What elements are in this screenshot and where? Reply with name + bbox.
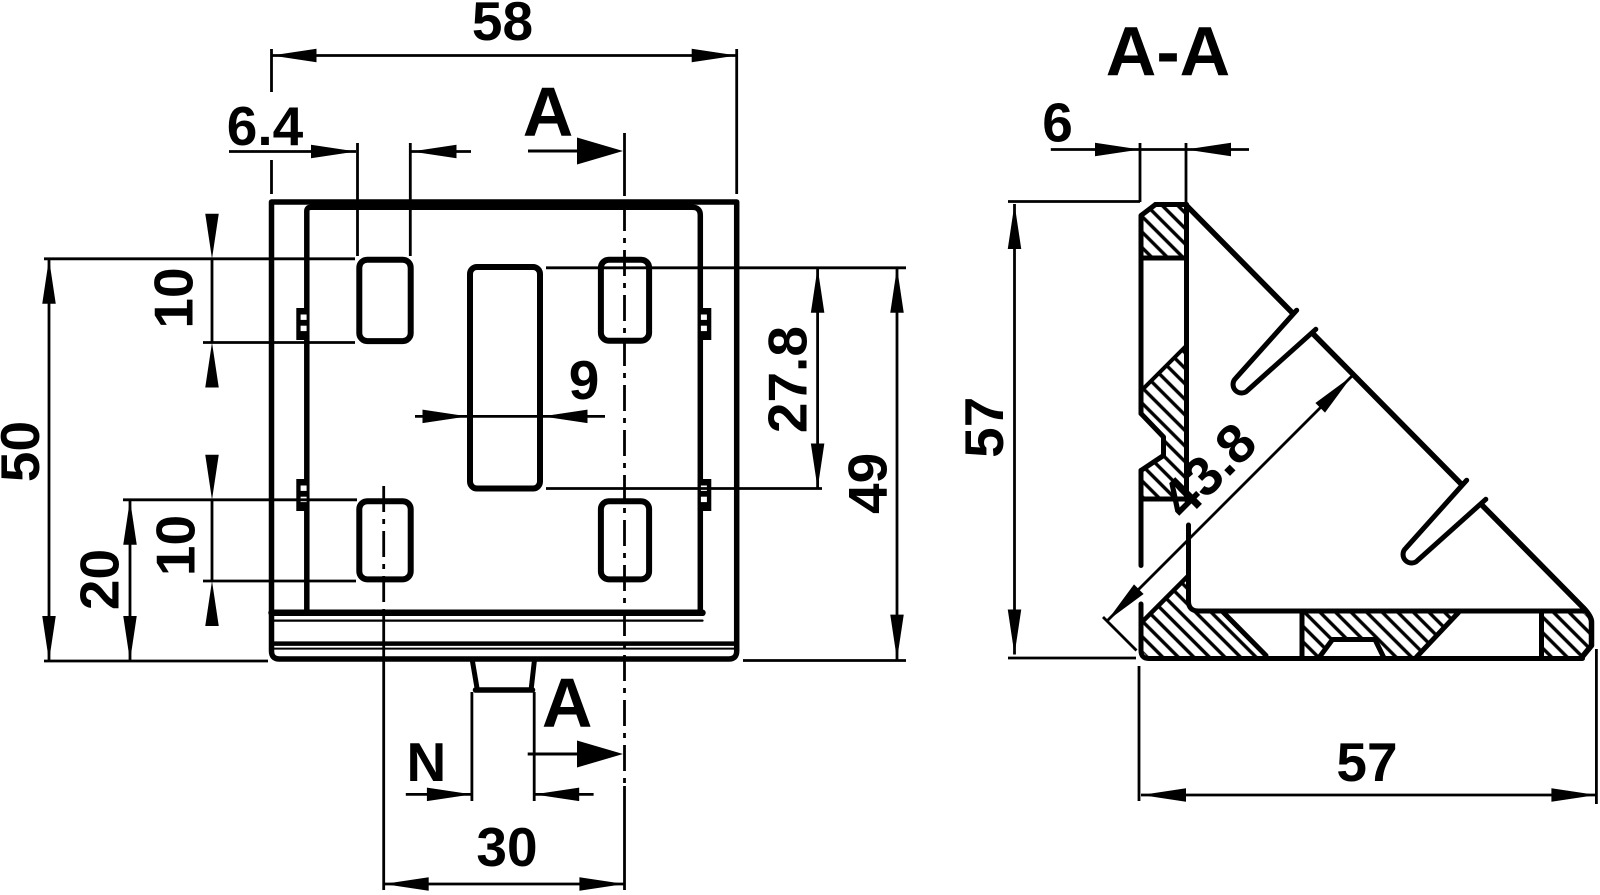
wall tab notch upper-left [296, 308, 309, 340]
section thread hole trapezoid [1320, 640, 1384, 658]
dim 27.8 line [816, 268, 819, 489]
dim 27.8/49 top ref [546, 266, 906, 269]
wall tab notch lower-left [296, 479, 309, 511]
section wall left edge upper segment [1141, 205, 1156, 414]
central slot bottom ref [546, 487, 822, 490]
dim 58 extension left [270, 49, 273, 194]
section right patch left edge [1539, 612, 1544, 659]
arrowheads dim 49 [890, 268, 904, 313]
section middle island right diagonal [1417, 613, 1459, 658]
dim 20 top ref [123, 498, 357, 501]
dim 57 horizontal line [1141, 794, 1596, 797]
arrowheads dim 30 [384, 877, 429, 891]
section wall left edge lower segment + bottom edge [1141, 604, 1583, 659]
dim 50 top extension / 10 ref [44, 257, 355, 260]
wall tab notch lower-right [698, 479, 711, 511]
arrowheads dim N [427, 788, 472, 802]
section A-A hatch zone wall top [1143, 205, 1185, 258]
section kerf slot 1 [1233, 310, 1316, 393]
svg-text:A: A [542, 664, 593, 742]
svg-text:A-A: A-A [1106, 13, 1230, 91]
arrowheads dim 6 [1095, 143, 1140, 157]
arrowheads dim 57 horizontal [1141, 788, 1186, 802]
arrowheads dim 20 [123, 500, 137, 545]
arrowheads dim 43.8 [1107, 584, 1144, 621]
dim N extensions [472, 692, 534, 801]
section arrowhead top [577, 138, 623, 165]
svg-text:57: 57 [953, 397, 1015, 458]
section corner hatch diagonal [1142, 577, 1188, 623]
dim 58 line [272, 54, 737, 57]
dim 57 vertical top ref [1008, 200, 1140, 203]
slot bottom-left [359, 501, 410, 579]
section corner hatch right diagonal [1222, 611, 1266, 656]
dim 57 horizontal extensions [1139, 649, 1596, 804]
slot bottom-right [601, 501, 649, 579]
corner chamfer extension line [1103, 617, 1137, 651]
dim 57 vertical bottom ref [1008, 657, 1136, 660]
section kerf slot 2 [1403, 480, 1486, 563]
arrowheads dim 10 lower [205, 455, 219, 500]
dim 10 lower bottom ref [203, 580, 356, 583]
centerline bottom-left column [382, 486, 385, 614]
svg-text:20: 20 [69, 549, 131, 610]
dim 43.8 leader [1107, 376, 1352, 621]
section middle island left edge [1300, 612, 1305, 659]
dim 30 line [384, 883, 625, 886]
base plate top edge line [272, 610, 703, 617]
arrowheads dim 27.8 [811, 268, 825, 313]
central slot [470, 267, 540, 489]
slot top-left [359, 260, 410, 341]
section arrow line top [528, 150, 580, 153]
arrowheads dim 58 [272, 49, 317, 63]
svg-text:30: 30 [476, 816, 537, 878]
svg-text:A: A [523, 73, 574, 151]
arrowheads dim 9 [423, 410, 468, 424]
section A-A hatch corner blob [1143, 577, 1265, 657]
svg-text:58: 58 [472, 0, 533, 52]
svg-text:9: 9 [569, 349, 600, 411]
base plate lower thin line [274, 648, 734, 650]
dim 6.4 line [229, 150, 471, 153]
dim 6 extensions [1140, 143, 1186, 202]
section arrowhead bottom [577, 741, 623, 768]
section inner corner edge [1189, 525, 1586, 611]
section line A-A centerline [623, 205, 626, 786]
dim 58 extension right [735, 49, 738, 194]
dim 57 vertical line [1013, 204, 1016, 655]
svg-text:10: 10 [145, 515, 207, 576]
svg-text:57: 57 [1336, 731, 1397, 793]
section wall hatch bottom boundary [1142, 497, 1187, 502]
dim 49 line [896, 268, 899, 660]
wall tab notch upper-right [698, 308, 711, 340]
dim 30 left extension [382, 614, 385, 890]
dim 50 line [48, 259, 51, 661]
notch slits [301, 315, 307, 320]
dim 10 upper line [211, 259, 214, 343]
arrowheads dim 50 [42, 259, 56, 304]
section wall hatch diagonal boundary [1142, 346, 1187, 391]
section A-A hatch right patch [1544, 614, 1590, 657]
svg-text:10: 10 [143, 267, 205, 328]
base plate upper thin line [274, 619, 703, 621]
arrowheads dim 57 vertical [1008, 204, 1022, 249]
svg-text:49: 49 [837, 453, 899, 514]
section wall right edge [1184, 205, 1189, 501]
bracket front view: inner wall face (rounded square) [307, 207, 701, 613]
dim 10 lower line [211, 500, 214, 581]
section line A top stub [623, 133, 626, 196]
dim 10 upper bottom ref [203, 341, 355, 344]
bracket front view: outer outline [272, 202, 737, 659]
dim 49 bottom ref [743, 659, 906, 662]
dim N line [406, 793, 594, 796]
dim 9 line [415, 415, 605, 418]
svg-text:N: N [407, 731, 447, 793]
section A-A hatch middle island [1305, 614, 1458, 657]
section wall hatch top boundary [1143, 256, 1185, 261]
section arrow line bottom [528, 753, 580, 756]
arrowheads dim 10 upper [205, 214, 219, 259]
svg-text:6: 6 [1042, 92, 1073, 154]
section hypotenuse [1187, 206, 1592, 657]
svg-text:6.4: 6.4 [227, 95, 304, 157]
section line A bottom extension [623, 786, 626, 890]
dim 6 line (section) [1051, 148, 1249, 151]
section wall top edge [1156, 202, 1187, 207]
section wall left edge middle segment [1139, 471, 1144, 566]
thread boss tab N [473, 662, 535, 689]
svg-text:27.8: 27.8 [757, 326, 819, 433]
slot top-right [601, 260, 649, 341]
section A-A hatch zone wall middle [1143, 346, 1186, 497]
section wall groove notch [1141, 414, 1164, 471]
svg-text:50: 50 [0, 421, 51, 482]
arrowheads dim 6.4 [311, 145, 356, 159]
dim 50 bottom extension [44, 660, 268, 663]
dim 6.4 extensions [358, 143, 411, 256]
base plate step edge line [274, 641, 734, 646]
dim 20 line [129, 500, 132, 661]
